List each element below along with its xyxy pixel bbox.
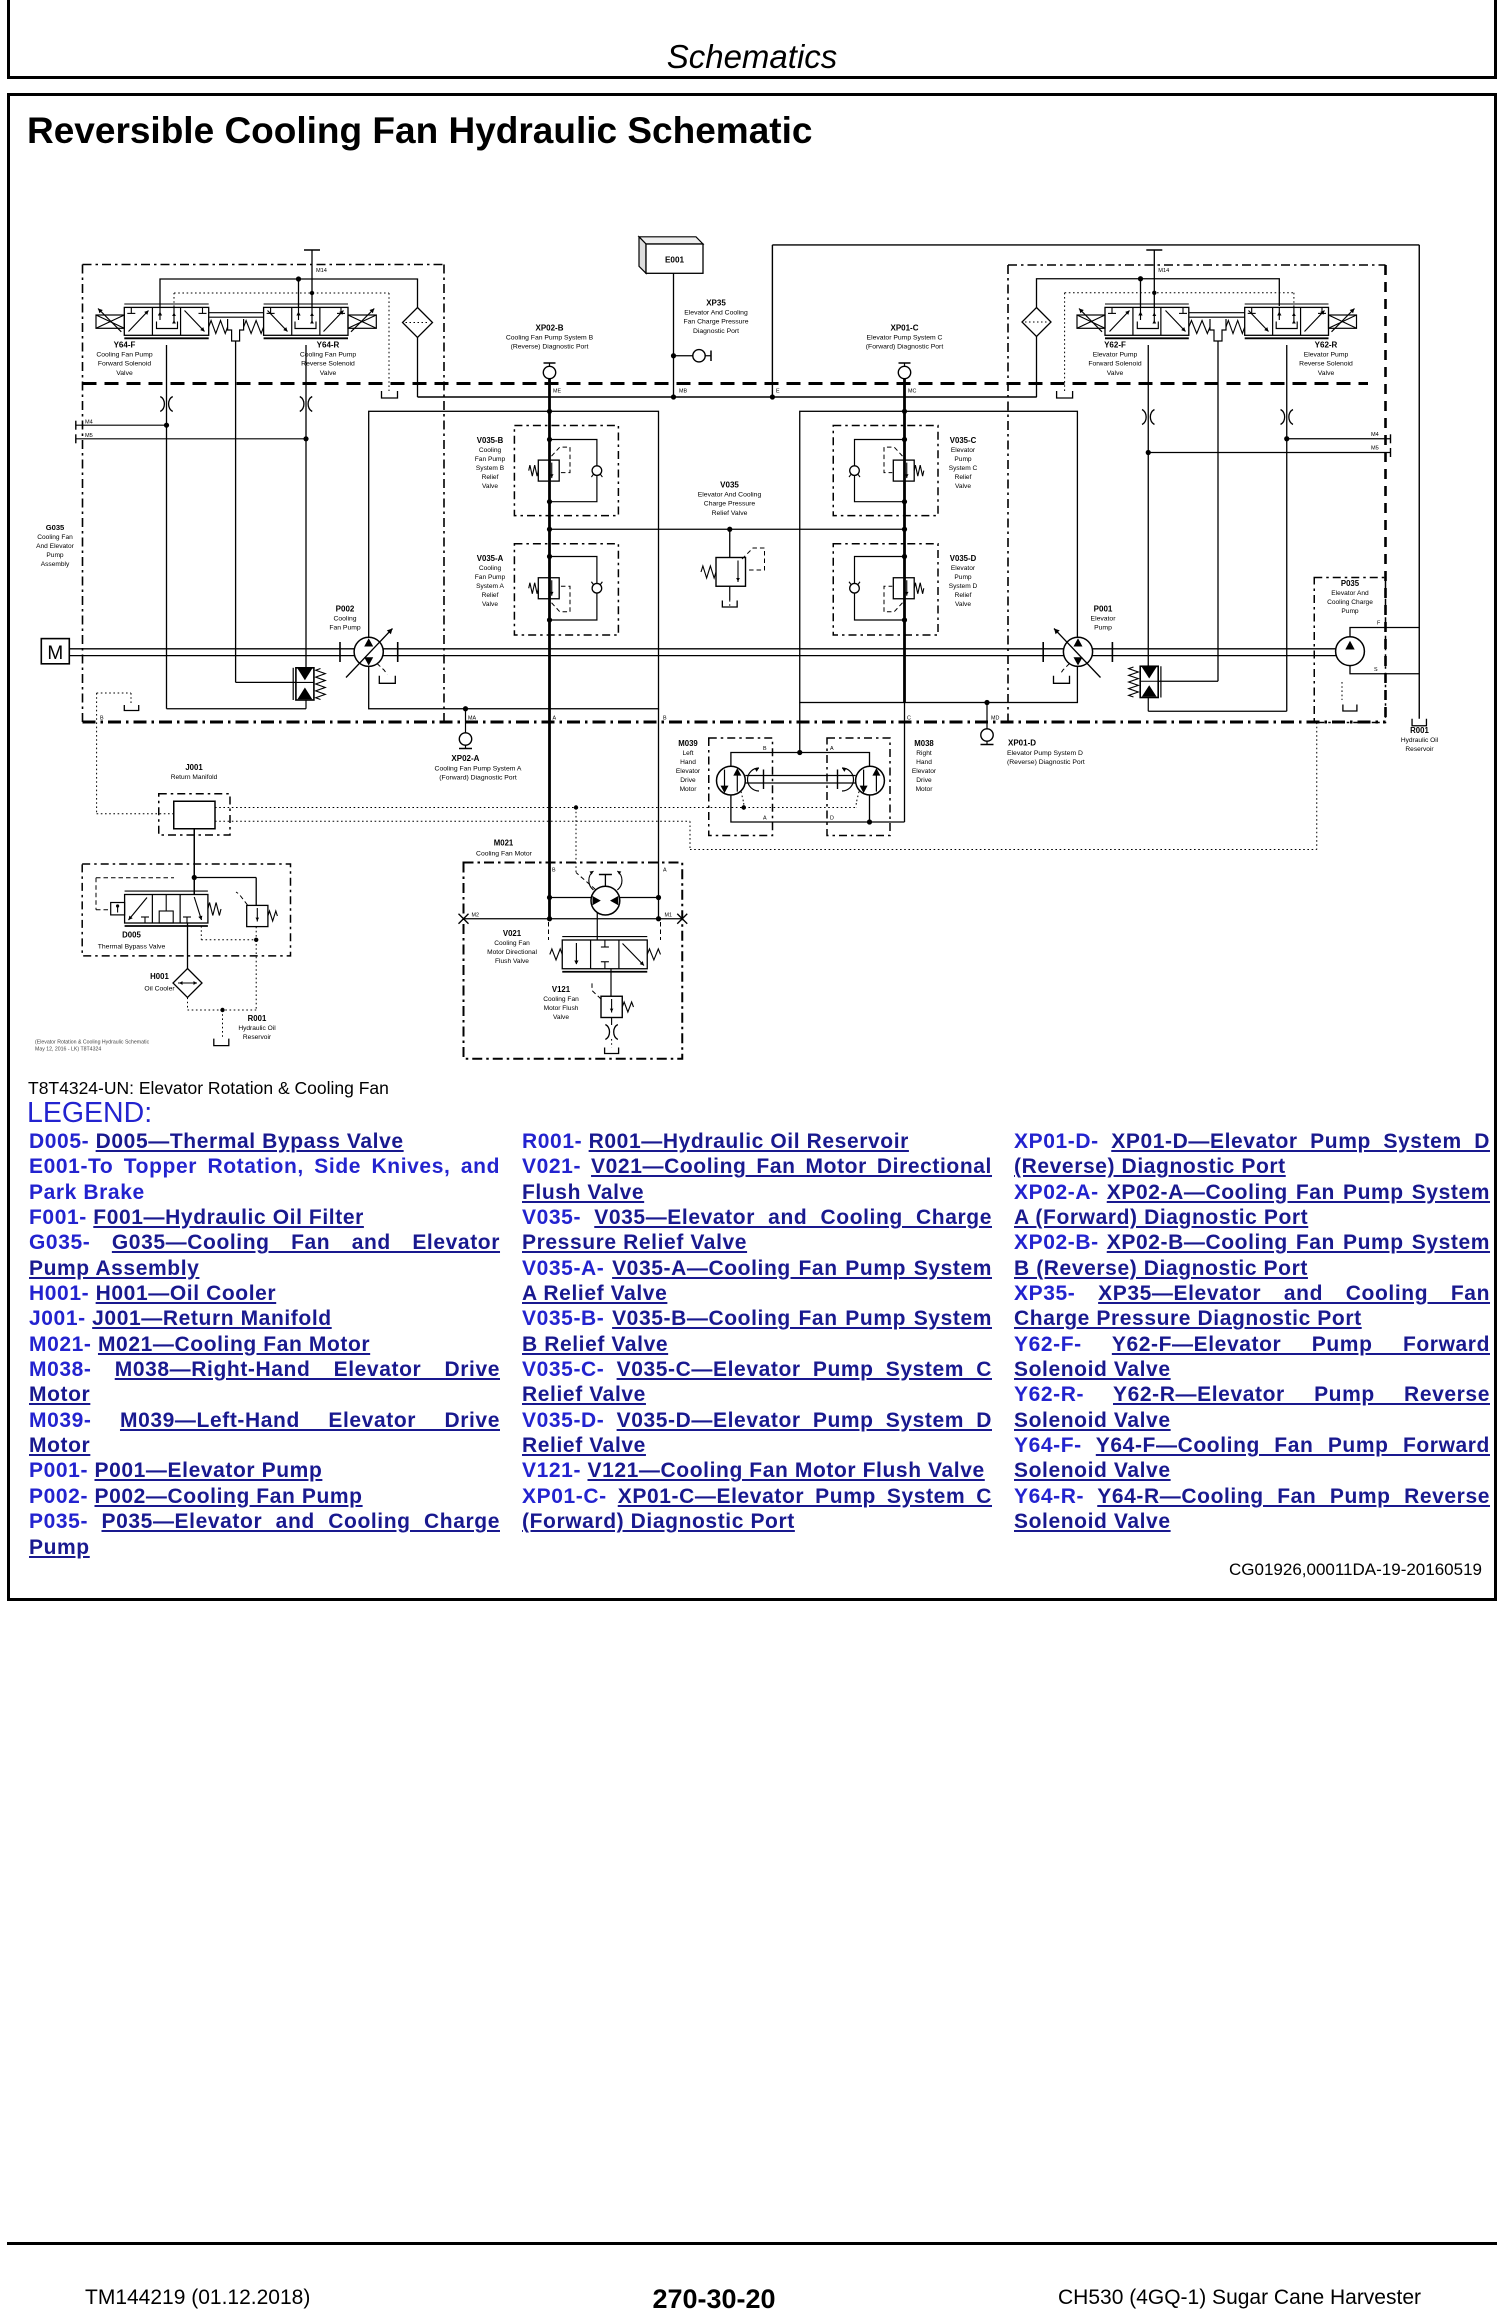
port X mark M2 <box>459 914 469 924</box>
svg-text:Valve: Valve <box>955 483 971 490</box>
svg-text:XP35: XP35 <box>706 298 726 307</box>
charge pump P035 boundary <box>1314 578 1385 723</box>
svg-text:ME: ME <box>553 389 561 395</box>
svg-text:Valve: Valve <box>116 370 133 377</box>
svg-text:Cooling Fan Pump System B: Cooling Fan Pump System B <box>506 334 594 341</box>
svg-text:(Forward) Diagnostic Port: (Forward) Diagnostic Port <box>866 344 944 351</box>
P035 case drain tank <box>1349 674 1351 700</box>
charge pump P035 <box>1336 637 1365 666</box>
wire right filter to main charge line <box>1036 337 1038 398</box>
assembly boundary G035 top-right segment <box>1008 264 1386 266</box>
connector E001 To Topper Rotation Side Knives and Park Brake <box>639 237 703 244</box>
wire V021 to V121 <box>610 969 612 997</box>
diagnostic port XP35 <box>674 355 693 357</box>
svg-text:Y64-R: Y64-R <box>317 340 340 349</box>
Y62-F cell3 internals <box>1166 311 1186 332</box>
diagnostic port XP02-A symbol <box>459 733 471 745</box>
svg-text:Elevator: Elevator <box>951 447 976 454</box>
relief valve V035-B <box>547 437 552 442</box>
return manifold J001 boundary <box>159 794 230 835</box>
charge relief valve V035 <box>729 529 731 557</box>
svg-text:M5: M5 <box>85 433 93 439</box>
drain dotted line right valve group <box>1293 293 1295 307</box>
svg-text:A: A <box>553 716 557 722</box>
svg-text:Pump: Pump <box>954 574 972 581</box>
wire E001 drop to main charge line <box>673 273 675 397</box>
svg-text:Pump: Pump <box>1094 625 1112 632</box>
wire Y64-R pilot drop <box>298 279 300 307</box>
assembly boundary G035 right border <box>1384 265 1387 722</box>
svg-text:G035: G035 <box>46 523 65 532</box>
dotted return to reservoir <box>187 998 189 1011</box>
svg-text:And Elevator: And Elevator <box>36 543 75 550</box>
wire Y62-F work port line <box>1147 345 1149 666</box>
svg-text:Left: Left <box>683 750 694 757</box>
svg-text:S: S <box>1374 667 1378 673</box>
svg-text:M038: M038 <box>914 739 934 748</box>
wire Y62-F pilot drop <box>1140 279 1142 307</box>
svg-text:Elevator: Elevator <box>951 565 976 572</box>
orifice left B <box>300 397 304 412</box>
D005 cell1 internals <box>129 898 148 921</box>
pump P001 Elevator Pump <box>1063 637 1092 666</box>
port M4 right <box>1287 438 1391 440</box>
engine M box <box>41 639 69 664</box>
svg-text:Fan Pump: Fan Pump <box>475 574 506 581</box>
Y64-F cell2 internals (center, pilot ports) <box>159 307 161 320</box>
svg-text:XP02-A: XP02-A <box>451 754 479 763</box>
svg-text:MA: MA <box>468 716 476 722</box>
rotation arrows <box>748 768 760 791</box>
pump P001 case drain <box>1060 664 1070 675</box>
solenoid valve Y64-F actuator <box>96 315 124 328</box>
svg-text:Forward Solenoid: Forward Solenoid <box>98 361 151 368</box>
svg-text:M4: M4 <box>1371 432 1379 438</box>
svg-text:Oil Cooler: Oil Cooler <box>144 986 175 993</box>
svg-text:Cooling Fan: Cooling Fan <box>494 940 530 947</box>
V021 cell2 internals <box>604 940 606 947</box>
svg-text:Elevator And: Elevator And <box>1331 590 1369 597</box>
V021 cell3 internals <box>623 944 645 966</box>
svg-text:MB: MB <box>679 389 687 395</box>
Y64-F cell1 internals <box>130 307 132 313</box>
wire D005 to oil cooler H001 <box>187 923 189 969</box>
svg-text:V035: V035 <box>720 480 739 489</box>
svg-text:D005: D005 <box>122 931 141 940</box>
wire top supply line from E001 area to right side <box>772 244 1419 246</box>
svg-text:Valve: Valve <box>1318 370 1335 377</box>
flush valve V121 <box>601 996 622 1017</box>
solenoid valve Y62-R body <box>1245 307 1329 335</box>
svg-text:Relief: Relief <box>955 592 972 599</box>
Y62-F spring <box>1189 321 1210 334</box>
svg-text:D: D <box>830 816 834 822</box>
svg-text:F: F <box>1377 621 1381 627</box>
svg-text:Charge Pressure: Charge Pressure <box>704 501 756 508</box>
shuttle check valve right <box>1158 680 1218 682</box>
svg-text:System A: System A <box>476 583 504 590</box>
svg-text:Relief: Relief <box>482 592 499 599</box>
svg-text:Relief: Relief <box>482 474 499 481</box>
relief valve V035-D <box>902 554 907 559</box>
svg-text:V121: V121 <box>552 985 571 994</box>
svg-text:Y62-R: Y62-R <box>1315 340 1338 349</box>
svg-text:Relief Valve: Relief Valve <box>712 510 748 517</box>
system line box right (elevator pump C/D lines) <box>800 411 1078 702</box>
svg-text:M1: M1 <box>665 913 673 919</box>
solenoid valve Y62-F body <box>1105 307 1189 335</box>
svg-text:Cooling Fan Pump: Cooling Fan Pump <box>96 351 153 358</box>
svg-text:Elevator Pump System D: Elevator Pump System D <box>1007 750 1083 757</box>
D005 pilot dashed lines <box>96 877 174 879</box>
svg-text:B: B <box>552 868 556 874</box>
svg-text:Elevator: Elevator <box>912 768 937 775</box>
wire pilot supply line right, y=278.75 <box>1037 279 1280 308</box>
system line box left (cooling fan pump A/B lines) <box>369 411 659 708</box>
svg-text:B: B <box>663 716 667 722</box>
wire M021 to V021 <box>596 913 598 941</box>
svg-text:Hand: Hand <box>916 759 932 766</box>
svg-text:Cooling Fan Motor: Cooling Fan Motor <box>476 851 533 858</box>
svg-text:P035: P035 <box>1341 579 1360 588</box>
wire Y64-F work port line (system line to fan motor B side) <box>166 345 168 709</box>
wire Y64 center tab line <box>235 341 237 682</box>
svg-text:Reverse Solenoid: Reverse Solenoid <box>1299 361 1353 368</box>
Y64-R spring <box>244 321 264 334</box>
svg-text:Right: Right <box>916 750 932 757</box>
motor interconnect shaft <box>745 775 855 777</box>
tank symbol left valve drain <box>382 391 398 398</box>
wire XP02-B to system B line <box>548 379 551 412</box>
motor M039 boundary <box>709 738 773 836</box>
svg-text:A: A <box>830 746 834 752</box>
svg-text:Valve: Valve <box>955 601 971 608</box>
wire P035 outlet F <box>1350 628 1419 637</box>
tank symbol V035 drain <box>722 601 737 608</box>
orifice below V121 <box>611 1018 613 1026</box>
svg-text:Valve: Valve <box>482 601 498 608</box>
svg-text:B: B <box>100 716 104 722</box>
svg-text:MD: MD <box>991 716 999 722</box>
pump P002 Cooling Fan Pump <box>354 637 383 666</box>
port M4 left <box>76 424 167 426</box>
svg-text:Motor Flush: Motor Flush <box>544 1005 579 1012</box>
solenoid valve Y64-F body <box>124 307 208 335</box>
wire pilot supply line left, y=279 <box>160 279 418 308</box>
motor M039 Left-Hand Elevator Drive Motor <box>717 766 746 795</box>
M021 output shaft with rotation arrows <box>604 875 606 887</box>
Y64-F spring <box>209 321 228 334</box>
wire M021 flush line M2-M1 <box>464 918 683 920</box>
centering detent between Y62-F and Y62-R <box>1210 319 1226 341</box>
svg-text:Assembly: Assembly <box>41 561 70 568</box>
svg-text:Elevator Pump: Elevator Pump <box>1093 351 1138 358</box>
svg-text:Valve: Valve <box>482 483 498 490</box>
charge relief valve V035 connection line <box>550 528 905 530</box>
relief valve V035-A boundary <box>514 544 618 635</box>
wire XP01-D stub <box>986 703 988 729</box>
wire elevator motor top line B-A <box>799 703 801 753</box>
solenoid valve Y62-R actuator <box>1329 315 1357 328</box>
relief valve V035-C <box>902 437 907 442</box>
heavy system B line from XP02-B down to cooling fan motor <box>548 411 551 918</box>
diagnostic port XP02-B symbol <box>549 363 551 366</box>
svg-text:Diagnostic Port: Diagnostic Port <box>693 328 739 335</box>
svg-text:V035-B: V035-B <box>477 436 504 445</box>
cooling fan motor M021 boundary <box>464 863 683 1059</box>
svg-text:Relief: Relief <box>955 474 972 481</box>
svg-text:Elevator And Cooling: Elevator And Cooling <box>684 309 748 316</box>
svg-text:Pump: Pump <box>46 552 64 559</box>
Y62-R cell3 internals <box>1305 311 1325 332</box>
svg-text:Valve: Valve <box>553 1014 569 1021</box>
motor M021 Cooling Fan Motor <box>591 886 620 915</box>
svg-text:B: B <box>763 746 767 752</box>
Y62-R spring <box>1226 321 1245 334</box>
motor M038 boundary <box>827 738 890 836</box>
svg-text:M: M <box>47 643 63 664</box>
svg-text:System B: System B <box>476 465 505 472</box>
tank symbol right valve drain <box>1057 391 1073 398</box>
oil cooler H001 <box>173 969 202 998</box>
svg-text:V035-C: V035-C <box>950 436 977 445</box>
Y64-R cell3 internals <box>324 311 344 332</box>
M021 case drain <box>576 873 596 890</box>
svg-text:Drive: Drive <box>916 777 932 784</box>
svg-text:Cooling Fan Pump: Cooling Fan Pump <box>300 351 357 358</box>
svg-text:(Reverse) Diagnostic Port: (Reverse) Diagnostic Port <box>1007 759 1085 766</box>
flush valve V021 body <box>562 940 647 969</box>
wire shuttle to U-connection left <box>305 700 307 709</box>
svg-text:R001: R001 <box>1410 726 1429 735</box>
svg-text:Elevator: Elevator <box>676 768 701 775</box>
Y62-R cell2 internals <box>1278 307 1280 320</box>
svg-text:(Forward) Diagnostic Port: (Forward) Diagnostic Port <box>439 775 517 782</box>
svg-text:Reservoir: Reservoir <box>243 1034 272 1041</box>
drive shaft double line <box>69 648 1336 650</box>
assembly boundary G035 top-left segment <box>83 264 445 266</box>
wire Y62 center tab line <box>1217 341 1219 681</box>
svg-text:System C: System C <box>949 465 978 472</box>
svg-text:Hydraulic Oil: Hydraulic Oil <box>1401 737 1439 744</box>
svg-text:Cooling Charge: Cooling Charge <box>1327 599 1373 606</box>
flush valve V021 pilot dashes <box>548 922 550 940</box>
V021 cell1 internals <box>575 943 577 964</box>
port M14 right with cap <box>1153 250 1155 307</box>
svg-text:Motor: Motor <box>680 786 698 793</box>
wire A-side line to M021 <box>658 709 660 919</box>
svg-text:Flush Valve: Flush Valve <box>495 958 529 965</box>
svg-text:M4: M4 <box>85 419 93 425</box>
heavy dashed internal boundary of G035 valve section <box>83 382 1369 385</box>
svg-text:P002: P002 <box>336 604 355 613</box>
orifice right A <box>1142 410 1146 425</box>
svg-text:Reverse Solenoid: Reverse Solenoid <box>301 361 355 368</box>
svg-text:Return Manifold: Return Manifold <box>171 774 218 781</box>
D005 relief valve <box>247 905 268 926</box>
svg-text:Motor: Motor <box>916 786 934 793</box>
svg-text:R001: R001 <box>248 1014 267 1023</box>
thermal bypass valve D005 body <box>125 895 208 924</box>
svg-text:Valve: Valve <box>320 370 337 377</box>
wire Y62-R work port line <box>1286 345 1288 711</box>
svg-text:Elevator Pump System C: Elevator Pump System C <box>867 334 943 341</box>
svg-text:Forward Solenoid: Forward Solenoid <box>1088 361 1141 368</box>
D005 spring <box>208 903 221 916</box>
svg-text:Hydraulic Oil: Hydraulic Oil <box>238 1025 276 1032</box>
svg-text:M021: M021 <box>494 839 514 848</box>
svg-text:Fan Pump: Fan Pump <box>475 456 506 463</box>
wire XP01-C to system C line <box>903 379 906 412</box>
svg-text:XP01-D: XP01-D <box>1008 739 1036 748</box>
svg-text:System D: System D <box>949 583 978 590</box>
svg-text:A: A <box>663 868 667 874</box>
svg-text:Cooling Fan Pump System A: Cooling Fan Pump System A <box>435 766 522 773</box>
svg-text:XP01-C: XP01-C <box>890 323 918 332</box>
assembly boundary G035 internal divider right <box>1007 265 1009 722</box>
wire main charge pressure line <box>418 396 1037 398</box>
svg-text:(Reverse) Diagnostic Port: (Reverse) Diagnostic Port <box>511 344 589 351</box>
motor M039 case drain <box>741 792 744 804</box>
svg-text:Hand: Hand <box>680 759 696 766</box>
motor M038 case drain <box>856 792 859 804</box>
svg-text:C: C <box>907 716 911 722</box>
heavy system C line from XP01-C down to elevator motors <box>903 411 906 702</box>
wire vertical drop from top line to main charge line, node E <box>771 245 773 397</box>
return dotted line 2 (suction to P035) <box>215 820 690 822</box>
V021 springs <box>550 949 562 960</box>
port M5 left <box>76 438 306 440</box>
svg-text:XP02-B: XP02-B <box>535 323 563 332</box>
solenoid valve Y64-R actuator <box>348 315 376 328</box>
svg-text:Pump: Pump <box>954 456 972 463</box>
svg-text:Fan Charge Pressure: Fan Charge Pressure <box>684 319 749 326</box>
svg-text:Cooling Fan: Cooling Fan <box>543 996 579 1003</box>
port X mark M1 <box>677 914 687 924</box>
svg-text:M5: M5 <box>1371 446 1379 452</box>
port M14 left with cap <box>311 250 313 307</box>
wire Y64-R work port line <box>305 345 307 668</box>
orifice right B <box>1281 410 1285 425</box>
return manifold J001 <box>174 801 215 829</box>
svg-text:Motor Directional: Motor Directional <box>487 949 537 956</box>
D005 left thermal actuator <box>111 903 125 915</box>
thermal bypass D005 boundary <box>82 864 290 956</box>
D005 cell3 internals <box>194 897 201 920</box>
svg-text:V035-A: V035-A <box>477 554 504 563</box>
svg-text:MC: MC <box>908 389 916 395</box>
relief valve V035-B boundary <box>514 426 618 516</box>
tank below V121 <box>611 1039 613 1048</box>
assembly boundary G035 internal divider left <box>443 265 445 723</box>
svg-text:(Elevator Rotation & Cooling H: (Elevator Rotation & Cooling Hydraulic S… <box>35 1040 150 1046</box>
D005 cell2 internals <box>165 895 167 912</box>
Y64-R cell1 internals <box>270 307 272 313</box>
svg-text:M2: M2 <box>472 913 480 919</box>
drain dotted line left valve group <box>173 293 175 307</box>
svg-text:V021: V021 <box>503 929 522 938</box>
wire XP02-A stub <box>465 709 467 733</box>
wire J001 to D005 <box>193 829 195 895</box>
reservoir R001 tank symbol left <box>214 1039 229 1046</box>
wire shuttle to U-connection right <box>1147 698 1149 712</box>
svg-text:Drive: Drive <box>680 777 696 784</box>
diagnostic port XP01-C symbol <box>904 363 906 366</box>
svg-text:J001: J001 <box>185 763 203 772</box>
D005 relief drain dotted <box>255 927 257 940</box>
shuttle check valve left <box>236 681 296 683</box>
Y64-R cell2 internals <box>298 307 300 320</box>
svg-text:Valve: Valve <box>1107 370 1124 377</box>
svg-text:A: A <box>763 816 767 822</box>
svg-text:E: E <box>776 389 780 395</box>
relief valve V035-A <box>547 554 552 559</box>
svg-text:Fan Pump: Fan Pump <box>329 625 361 632</box>
wire tall right line to reservoir R001 <box>1418 245 1420 719</box>
dotted drain from G035 to J001 <box>96 693 98 814</box>
assembly boundary G035 left border <box>82 265 84 723</box>
Y62-F cell2 internals <box>1140 307 1142 320</box>
svg-text:Thermal Bypass Valve: Thermal Bypass Valve <box>98 944 166 951</box>
svg-text:M14: M14 <box>316 268 327 274</box>
diagnostic port XP01-D symbol <box>981 729 993 741</box>
wire P035 suction S <box>1350 666 1419 674</box>
svg-text:Elevator Pump: Elevator Pump <box>1304 351 1349 358</box>
orifice left A <box>160 397 164 412</box>
solenoid valve Y62-F actuator <box>1077 315 1105 328</box>
relief valve V035-D boundary <box>833 544 938 635</box>
svg-text:Cooling: Cooling <box>479 447 502 454</box>
solenoid valve Y64-R body <box>264 307 348 335</box>
pump P002 case drain <box>377 664 387 675</box>
tank symbol G035 bottom-left drain <box>124 705 138 711</box>
Y62-F cell1 internals <box>1111 307 1113 313</box>
assembly boundary G035 bottom border <box>83 721 1386 724</box>
svg-text:Y64-F: Y64-F <box>114 340 136 349</box>
hydraulic filter F-right <box>1022 308 1051 337</box>
svg-text:H001: H001 <box>150 972 169 981</box>
Y62-R cell1 internals <box>1251 307 1253 313</box>
svg-text:Cooling: Cooling <box>479 565 502 572</box>
port M5 right <box>1148 452 1390 454</box>
svg-text:Elevator: Elevator <box>1091 615 1117 622</box>
hydraulic filter F-left <box>403 308 433 338</box>
wire elevator motor bottom line <box>731 795 905 822</box>
svg-text:M039: M039 <box>678 739 698 748</box>
wire M021 motor cross line <box>549 897 660 899</box>
wire D005 branch to relief <box>194 877 256 879</box>
svg-text:V035-D: V035-D <box>950 554 977 563</box>
svg-text:Elevator And Cooling: Elevator And Cooling <box>698 491 762 498</box>
svg-text:Pump: Pump <box>1341 608 1359 615</box>
centering detent between Y64-F and Y64-R <box>228 319 244 341</box>
svg-text:P001: P001 <box>1094 604 1113 613</box>
svg-text:M14: M14 <box>1158 268 1169 274</box>
svg-text:Cooling: Cooling <box>333 615 356 622</box>
motor M038 Right-Hand Elevator Drive Motor <box>856 766 885 795</box>
shaft coupling marks <box>339 642 341 662</box>
relief valve V035-C boundary <box>833 426 938 516</box>
reservoir R001 tank symbol right <box>1412 719 1426 726</box>
svg-text:Y62-F: Y62-F <box>1104 340 1126 349</box>
svg-text:E001: E001 <box>665 256 685 265</box>
wire filter to main charge line <box>417 338 419 398</box>
Y64-F cell3 internals <box>185 311 205 332</box>
svg-text:May 12, 2016 - LK) T8T4324: May 12, 2016 - LK) T8T4324 <box>35 1047 101 1053</box>
svg-text:Cooling Fan: Cooling Fan <box>37 534 73 541</box>
return dotted line 1 (case drains) <box>215 807 856 809</box>
svg-text:Reservoir: Reservoir <box>1405 746 1434 753</box>
